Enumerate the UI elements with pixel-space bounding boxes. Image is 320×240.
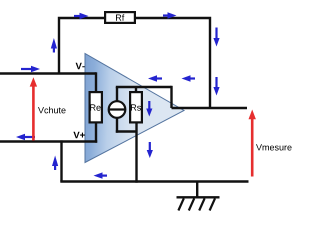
- wire current source bottom stub: [116, 119, 118, 133]
- current arrow left above rail (inner): [148, 75, 162, 81]
- current arrow down on right vertical upper: [213, 28, 219, 47]
- wire feedback top-right (Rf to right vertical down to output): [136, 18, 210, 108]
- ground hatch 2: [189, 198, 194, 210]
- wire V- to Re: [95, 72, 97, 92]
- wire top internal rail: [116, 86, 172, 88]
- wire output: [172, 107, 248, 109]
- wire non-inverting input V+: [0, 140, 97, 142]
- voltage arrow Vchute (red): [30, 77, 37, 140]
- wire rail down to output node: [170, 86, 172, 108]
- wire bottom return: [60, 180, 248, 182]
- resistor Re: [90, 92, 102, 122]
- voltage arrow Vmesure (red): [249, 110, 256, 177]
- ground bar: [177, 196, 220, 198]
- ground hatch 3: [199, 198, 204, 210]
- ground hatch 4: [210, 198, 215, 210]
- resistor Rf: [105, 12, 135, 23]
- wire Rs bottom down to return: [135, 123, 137, 183]
- current arrow up beside lower-left vertical: [52, 156, 58, 171]
- wire Rs top stub: [135, 87, 137, 92]
- current source CS: [109, 101, 126, 118]
- current arrow left on V+ wire: [16, 134, 35, 140]
- wire V+ down to bottom return: [60, 140, 62, 181]
- current arrow right on V- wire: [21, 66, 40, 72]
- resistor Rs: [130, 92, 142, 122]
- label V+ (non-inverting input): [73, 132, 85, 139]
- ground hatch 1: [178, 198, 183, 210]
- current arrow right on top wire right of Rf: [163, 12, 177, 18]
- label V- (inverting input): [76, 63, 85, 69]
- current arrow left above rail (outer): [182, 75, 196, 81]
- wire bottom internal rail: [116, 130, 137, 132]
- current arrow right on top wire left of Rf: [74, 13, 89, 19]
- current arrow down on right vertical lower: [213, 77, 219, 96]
- label Vchute: [38, 107, 66, 114]
- op-amp U1 body: [85, 54, 184, 163]
- current arrow left on bottom return wire: [94, 172, 108, 178]
- wire Re to V+: [95, 123, 97, 143]
- wire inverting input V-: [0, 72, 96, 74]
- current arrow down below triangle: [147, 142, 153, 158]
- label Vmesure: [256, 144, 292, 150]
- wire feedback top-left (left vertical + top segment to Rf): [59, 18, 104, 74]
- wire current source top stub: [116, 87, 118, 101]
- ground stub: [196, 181, 198, 198]
- current arrow up beside left vertical: [51, 38, 57, 53]
- current arrow down beside Rs: [146, 101, 152, 117]
